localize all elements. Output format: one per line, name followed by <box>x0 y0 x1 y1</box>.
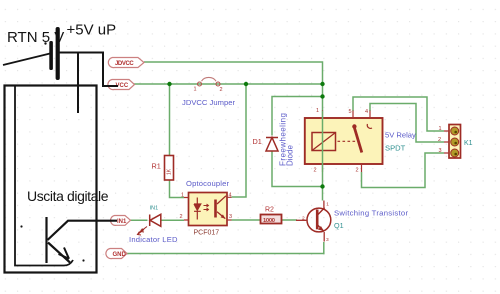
wire opto pin3 to R2 to Q1 base <box>232 219 298 221</box>
svg-text:Uscita digitale: Uscita digitale <box>27 188 109 204</box>
net flag VCC <box>108 80 135 90</box>
wire D1 bottom branch <box>272 152 323 187</box>
annotation transistor sketch <box>47 217 118 263</box>
svg-text:2: 2 <box>220 87 223 93</box>
wire D1 top branch <box>272 97 323 136</box>
battery plate short <box>49 41 53 70</box>
annotation wire +5V into box <box>77 53 79 114</box>
junction dot D1 top <box>320 94 324 98</box>
svg-text:R2: R2 <box>265 207 274 214</box>
annotation wire diagonal to battery <box>3 54 50 66</box>
svg-text:2: 2 <box>314 168 317 174</box>
resistor R2 <box>261 215 282 225</box>
svg-text:1: 1 <box>326 201 329 207</box>
svg-text:1: 1 <box>439 126 442 132</box>
net flag JDVCC <box>108 58 144 68</box>
svg-text:1: 1 <box>194 87 197 93</box>
wire relay contact 5 to K1 pin1 <box>353 97 444 131</box>
svg-text:3: 3 <box>439 148 442 154</box>
relay pin stubs <box>314 108 371 174</box>
svg-text:4: 4 <box>365 109 368 115</box>
svg-text:3: 3 <box>229 214 232 220</box>
junction dot R1/VCC <box>167 82 171 86</box>
value SPDT <box>385 144 406 153</box>
svg-text:IN1: IN1 <box>150 205 159 211</box>
svg-text:2: 2 <box>356 168 359 174</box>
svg-text:2: 2 <box>302 215 305 221</box>
svg-text:1000: 1000 <box>263 218 275 224</box>
label Freewheeling Diode <box>279 113 295 166</box>
label 5V Relay <box>385 131 416 140</box>
value PCF017 <box>194 230 220 237</box>
resistor R1 <box>165 156 174 181</box>
wire VCC to R1 <box>170 84 185 198</box>
wire relay contact 4 to K1 pin2 <box>370 104 444 143</box>
wire coil line through relay <box>322 111 324 172</box>
label JDVCC Jumper <box>182 98 235 107</box>
svg-text:1K: 1K <box>167 168 173 175</box>
annotation wire battery to VCC <box>60 53 119 87</box>
device box Uscita digitale <box>5 86 97 273</box>
connector K1 <box>438 125 461 159</box>
svg-text:1: 1 <box>181 193 184 199</box>
net label IN1 <box>150 205 159 211</box>
svg-text:3: 3 <box>326 237 329 243</box>
optocoupler internal transistor <box>216 196 227 219</box>
svg-text:Q1: Q1 <box>334 221 344 230</box>
junction dot opto4/VCC <box>244 82 248 86</box>
svg-text:SPDT: SPDT <box>385 144 406 153</box>
svg-text:D1: D1 <box>253 137 262 146</box>
svg-text:R1: R1 <box>152 161 161 170</box>
annotation text +5V uP <box>67 22 117 39</box>
annotation pen marks <box>20 225 84 261</box>
svg-text:JDVCC: JDVCC <box>115 61 134 67</box>
svg-text:+5V uP: +5V uP <box>67 22 117 39</box>
relay coil <box>312 133 336 151</box>
svg-text:PCF017: PCF017 <box>194 230 220 237</box>
transistor Q1 <box>296 201 331 243</box>
relay K box <box>305 118 383 164</box>
svg-text:5V Relay: 5V Relay <box>385 131 416 140</box>
annotation text Uscita digitale <box>27 188 109 204</box>
label R1 <box>152 161 161 170</box>
battery plate tall <box>56 27 60 80</box>
LED indicator diode <box>138 214 161 235</box>
svg-text:GND: GND <box>113 252 127 258</box>
svg-text:Indicator LED: Indicator LED <box>129 235 178 244</box>
svg-text:Diode: Diode <box>286 145 295 166</box>
annotation ink dot <box>44 42 46 44</box>
annotation text RTN 5 V <box>7 29 64 46</box>
svg-text:Switching Transistor: Switching Transistor <box>334 209 408 218</box>
wire relay common to K1 pin3 <box>362 153 445 188</box>
wire JDVCC down to relay coil <box>322 84 324 111</box>
wire JDVCC top rail <box>144 62 323 84</box>
svg-text:4: 4 <box>229 193 232 199</box>
wire GND rail <box>127 242 324 254</box>
svg-text:5: 5 <box>349 109 352 115</box>
svg-text:2: 2 <box>438 137 441 143</box>
diode D1 freewheeling <box>266 138 278 152</box>
label Switching Transistor <box>334 209 408 218</box>
label Q1 <box>334 221 344 230</box>
relay dashed link <box>338 140 358 142</box>
net flag GND <box>106 249 127 259</box>
jumper SJ1 <box>194 77 223 93</box>
junction dot collector node <box>320 184 324 188</box>
optocoupler light arrows <box>204 204 209 211</box>
wire VCC jumper row <box>134 83 323 85</box>
label R2 <box>265 207 274 214</box>
svg-text:IN1: IN1 <box>117 219 127 225</box>
label Optocoupler <box>186 179 229 188</box>
optocoupler pin stubs <box>180 193 233 221</box>
wire coil to Q1 collector <box>322 172 324 201</box>
svg-text:2: 2 <box>180 214 183 220</box>
optocoupler U1 box <box>189 193 228 226</box>
junction dot JDVCC/VCC row <box>320 82 324 86</box>
wire IN1 to LED to opto pin2 <box>131 219 185 221</box>
label D1 <box>253 137 262 146</box>
svg-text:Optocoupler: Optocoupler <box>186 179 229 188</box>
wire VCC to opto pin4 <box>232 84 247 197</box>
svg-text:JDVCC Jumper: JDVCC Jumper <box>182 98 235 107</box>
relay armature <box>352 124 372 153</box>
svg-text:1: 1 <box>316 108 319 114</box>
optocoupler internal LED <box>194 198 201 220</box>
net flag IN1 <box>111 216 131 226</box>
label Indicator LED <box>129 235 178 244</box>
svg-text:K1: K1 <box>464 140 473 147</box>
label K1 <box>464 140 473 147</box>
